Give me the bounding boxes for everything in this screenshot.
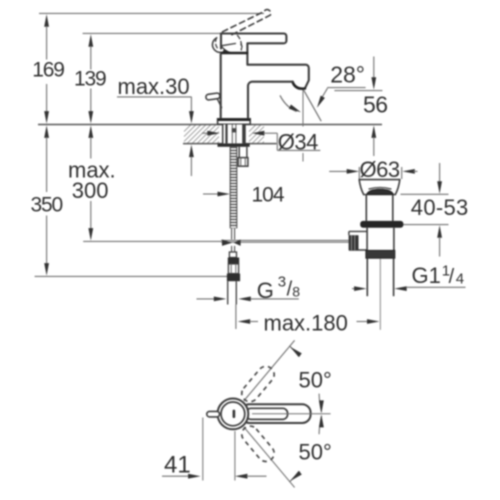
svg-text:8: 8 (292, 283, 300, 299)
svg-text:28°: 28° (330, 62, 365, 88)
svg-text:50°: 50° (299, 367, 332, 392)
svg-text:/: / (449, 266, 455, 288)
svg-text:169: 169 (32, 58, 64, 81)
svg-text:56: 56 (363, 91, 388, 117)
svg-text:G1: G1 (412, 263, 441, 288)
svg-text:Ø34: Ø34 (278, 130, 318, 155)
svg-text:3: 3 (278, 274, 286, 291)
svg-text:G: G (257, 278, 274, 303)
svg-text:104: 104 (252, 183, 285, 206)
svg-text:300: 300 (72, 178, 109, 203)
svg-text:Ø63: Ø63 (360, 157, 400, 182)
svg-text:41: 41 (164, 451, 191, 478)
svg-text:40-53: 40-53 (411, 195, 469, 220)
svg-text:139: 139 (74, 67, 106, 90)
svg-text:max.180: max.180 (264, 310, 348, 335)
svg-text:50°: 50° (299, 440, 332, 465)
svg-text:4: 4 (456, 271, 464, 288)
svg-text:max.30: max.30 (118, 74, 190, 99)
svg-text:350: 350 (31, 194, 63, 217)
